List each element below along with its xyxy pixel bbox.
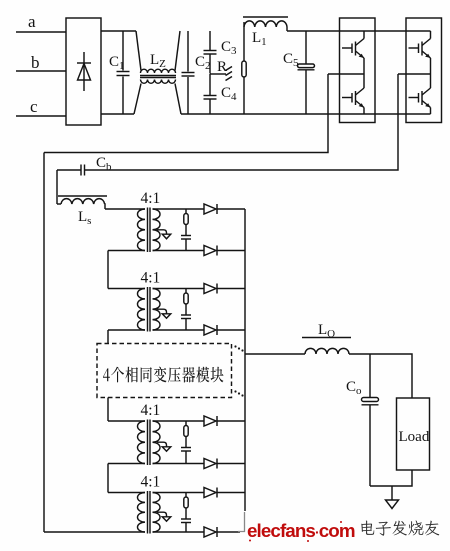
wire phase c — [16, 115, 66, 117]
svg-text:4:1: 4:1 — [141, 270, 161, 287]
svg-text:R: R — [217, 59, 227, 75]
diode T2 top — [204, 284, 217, 294]
wire T4 secondary bottom — [153, 531, 205, 533]
wire bus corner faint — [238, 512, 245, 532]
capacitor Co — [362, 354, 379, 486]
wire T4 secondary top — [153, 492, 205, 494]
transformer T2 core — [148, 287, 151, 332]
wire leg2 to Cb — [85, 74, 399, 170]
rectifier bridge box — [66, 18, 101, 125]
wire T3 primary top — [108, 420, 145, 422]
diode T3 bottom — [204, 459, 217, 469]
diode T1 top — [204, 204, 217, 214]
wire Cb to Ls — [56, 170, 58, 204]
wire bus to Lo — [245, 353, 305, 355]
wire diode T2 top to bus — [217, 288, 245, 290]
wire top rail right — [287, 30, 431, 32]
wire leg1 to left bus — [44, 74, 328, 153]
wire right bus — [244, 209, 246, 511]
svg-text:4:1: 4:1 — [141, 402, 161, 419]
svg-text:4:1: 4:1 — [141, 190, 161, 207]
wire diode T3 top to bus — [217, 420, 245, 422]
transistor Q2 — [342, 74, 364, 114]
wire diode T1 top to bus — [217, 208, 245, 210]
snubber capacitor T4 — [181, 519, 191, 532]
diode T4 top — [204, 488, 217, 498]
snubber resistor T3 — [184, 421, 188, 447]
transformer T2 secondary winding — [153, 289, 161, 331]
capacitor C4 — [204, 74, 217, 114]
transformer T3 primary winding — [138, 421, 146, 463]
transistor Q3 — [409, 31, 431, 74]
wire top rail — [101, 30, 136, 32]
capacitor C2 — [182, 31, 195, 114]
rectifier diode symbol — [77, 52, 91, 91]
inductor Ls — [57, 196, 107, 209]
resistor R stub and symbol — [210, 67, 232, 81]
diode T1 bottom — [204, 246, 217, 256]
wire T2 primary top — [108, 288, 145, 290]
wire T2 primary bottom — [108, 329, 145, 331]
wire Lo to load — [349, 354, 412, 398]
transformer T3 core — [148, 420, 151, 466]
IGBT module box 2 — [406, 18, 442, 123]
transistor Q4 — [409, 74, 431, 114]
damping resistor on L1 branch — [242, 22, 246, 114]
wire diode T2 bottom to bus — [217, 329, 245, 331]
load box — [397, 398, 430, 470]
transistor Q1 — [342, 31, 364, 74]
wire T1 secondary top — [153, 208, 205, 210]
wire bottom rail left — [101, 113, 134, 115]
module box label 4个相同变压器模块 — [103, 367, 224, 383]
transformer T4 secondary winding — [153, 493, 161, 533]
continuation dots bottom — [234, 390, 243, 396]
wire T3 primary bottom — [108, 463, 145, 465]
svg-text:b: b — [31, 53, 40, 72]
wire T1 to T2 primary — [107, 251, 109, 289]
wire module box to T3 primary — [107, 398, 109, 422]
transformer T2 primary winding — [138, 289, 146, 331]
wire phase a — [16, 31, 66, 33]
wire T2 secondary bottom — [153, 329, 205, 331]
wire left bus — [43, 153, 45, 533]
wire diode T4 top to bus — [217, 492, 245, 494]
wire T2 primary down to module box — [107, 330, 109, 344]
wire phase b — [16, 70, 66, 72]
svg-text:c: c — [30, 97, 38, 116]
wire T4 primary bottom to left bus — [44, 531, 145, 533]
wire diode T1 bottom to bus — [217, 250, 245, 252]
continuation dots top — [234, 345, 243, 351]
center tap arrow T4 — [157, 512, 171, 521]
inductor L1 — [243, 17, 288, 31]
snubber capacitor T3 — [181, 448, 191, 464]
diode T4 bottom — [204, 527, 217, 537]
dashed module box — [97, 344, 232, 398]
snubber capacitor T1 — [181, 236, 191, 251]
transformer T4 core — [148, 491, 151, 534]
transformer T4 primary winding — [138, 493, 146, 533]
watermark white band — [240, 511, 450, 541]
IGBT module box 1 — [340, 18, 376, 123]
transformer T3 secondary winding — [153, 421, 161, 463]
wire T3 to T4 primary — [107, 464, 109, 493]
transformer T1 core — [148, 208, 151, 253]
center tap arrow T3 — [157, 442, 171, 451]
wire T4 primary top — [108, 492, 145, 494]
watermark chinese 电子发烧友 — [361, 521, 439, 536]
wire diode T3 bottom to bus — [217, 463, 245, 465]
capacitor C1 — [117, 31, 130, 114]
capacitor C3 — [204, 31, 217, 74]
snubber capacitor T2 — [181, 315, 191, 330]
wire T3 secondary top — [153, 420, 205, 422]
capacitor C5 — [298, 31, 315, 114]
wire load bottom — [370, 470, 412, 486]
diode T3 top — [204, 416, 217, 426]
snubber resistor T4 — [184, 493, 188, 519]
wire T3 secondary bottom — [153, 463, 205, 465]
wire leg2 midpoint — [398, 73, 431, 75]
transformer T1 primary winding — [138, 209, 146, 251]
snubber resistor T2 — [184, 289, 188, 315]
wire T1 secondary bottom — [153, 250, 205, 252]
wire diode T4 bottom to bus — [217, 531, 245, 533]
transformer T1 secondary winding — [153, 209, 161, 251]
watermark decorations — [249, 521, 342, 542]
wire bottom rail — [181, 113, 431, 115]
wire T1 primary bottom — [108, 250, 145, 252]
svg-text:a: a — [28, 12, 36, 31]
ground — [386, 486, 399, 509]
svg-text:Load: Load — [399, 429, 430, 445]
inductor Lo — [302, 338, 351, 355]
wire T2 secondary top — [153, 288, 205, 290]
svg-text:4:1: 4:1 — [141, 474, 161, 491]
center tap arrow T2 — [157, 309, 171, 318]
wire Ls to T1 primary — [105, 208, 145, 210]
wire leg1 midpoint — [328, 73, 364, 75]
diode T2 bottom — [204, 325, 217, 335]
snubber resistor T1 — [184, 209, 188, 235]
inductor Lz coupled windings — [134, 31, 181, 114]
capacitor Cb — [57, 165, 85, 176]
svg-text:elecfans·com: elecfans·com — [247, 520, 355, 541]
center tap arrow T1 — [157, 230, 171, 239]
